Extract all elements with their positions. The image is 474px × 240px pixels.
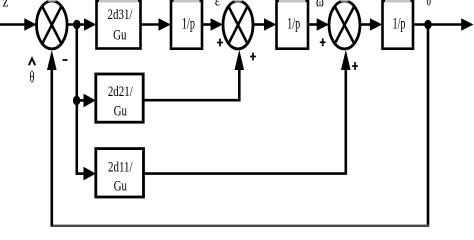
- block G11 "2d11/Gu": [96, 149, 144, 197]
- wire outer feedback loop (output down, bottom, left up to S1): [47, 25, 429, 228]
- wire I3 to output: [413, 18, 474, 31]
- svg-text:2d11/: 2d11/: [108, 158, 133, 175]
- wire n3 to block G21: [77, 94, 96, 108]
- block I3 "1/p": [383, 1, 414, 49]
- plus sign at S3 bottom input: [352, 62, 358, 70]
- plus sign at S2 bottom input: [250, 53, 256, 61]
- svg-text:1/p: 1/p: [392, 14, 405, 32]
- svg-text:2d21/: 2d21/: [108, 82, 133, 99]
- wire inner feedback from n1 down: [76, 25, 79, 175]
- svg-text:θ: θ: [29, 69, 34, 87]
- block G21 "2d21/Gu": [96, 74, 143, 122]
- wire S3 to integrator I3: [360, 18, 382, 31]
- svg-text:z: z: [3, 0, 9, 11]
- node theta label (clipped at top): [426, 0, 431, 9]
- wire I2 to summing junction S3: [308, 18, 329, 31]
- wire I1 to summing junction S2: [202, 18, 223, 31]
- svg-text:Gu: Gu: [114, 177, 128, 194]
- svg-text:ε: ε: [215, 0, 220, 10]
- wire inner feedback corner to block G11: [76, 167, 96, 181]
- plus sign at S3 left input: [320, 38, 326, 46]
- minus sign at S1 feedback input: [63, 59, 68, 61]
- block I2 "1/p": [277, 1, 309, 49]
- block G31 "2d31/Gu": [97, 1, 141, 49]
- plus sign at S2 left input: [217, 39, 223, 47]
- svg-text:1/p: 1/p: [287, 14, 300, 32]
- wire S2 to integrator I2: [253, 18, 276, 31]
- svg-text:ω: ω: [316, 0, 324, 11]
- wire G31 to integrator I1: [141, 18, 171, 31]
- summing junction S1: [37, 0, 68, 49]
- node omega label (clipped at top): [316, 0, 324, 11]
- node n1 (junction dot after S1): [73, 20, 80, 29]
- wire G11 to S3 bottom input: [142, 50, 350, 174]
- label theta-hat (estimate): [29, 58, 35, 87]
- summing junction S2: [223, 0, 253, 49]
- wire G21 to S2 bottom input: [142, 50, 244, 100]
- block I1 "1/p": [171, 1, 202, 49]
- node n2 (output junction dot): [424, 20, 431, 30]
- node n3 (junction dot on inner feedback at G21 row): [73, 96, 80, 105]
- wire S1 to block G31: [67, 18, 97, 31]
- node epsilon label (clipped at top): [215, 0, 220, 10]
- svg-text:2d31/: 2d31/: [108, 5, 133, 22]
- svg-text:Gu: Gu: [114, 102, 128, 119]
- wire input to summing junction S1: [0, 18, 37, 31]
- summing junction S3: [329, 0, 360, 49]
- svg-text:θ: θ: [426, 0, 431, 9]
- svg-text:Gu: Gu: [113, 26, 127, 43]
- svg-text:1/p: 1/p: [182, 14, 195, 32]
- node z (input label, clipped at top): [3, 0, 9, 11]
